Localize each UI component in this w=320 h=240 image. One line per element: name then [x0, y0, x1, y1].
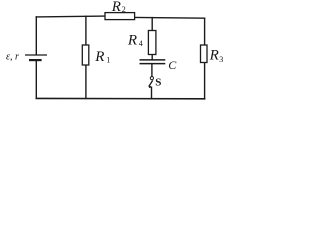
wire R1 branch upper	[85, 16, 87, 45]
svg-text:3: 3	[219, 55, 223, 64]
wire capacitor to switch	[151, 64, 153, 77]
svg-text:S: S	[155, 77, 161, 89]
svg-text:R: R	[127, 32, 137, 48]
svg-text:R: R	[111, 0, 121, 15]
svg-text:C: C	[168, 58, 177, 72]
wire bottom	[36, 97, 204, 99]
svg-text:R: R	[94, 49, 104, 65]
wire left edge lower (from battery)	[35, 61, 37, 99]
svg-text:ε, r: ε, r	[6, 52, 19, 63]
resistor R1 box	[82, 45, 89, 65]
resistor R4 box	[148, 31, 156, 55]
resistor R3 box	[201, 45, 208, 63]
switch S contact dot	[149, 86, 151, 88]
wire right edge lower	[204, 63, 206, 99]
wire left edge upper (to battery)	[35, 17, 37, 55]
svg-text:2: 2	[122, 5, 126, 14]
svg-text:1: 1	[106, 55, 110, 64]
capacitor C top plate	[140, 59, 166, 61]
svg-text:4: 4	[139, 39, 143, 48]
battery cell (long thin plate)	[25, 54, 47, 56]
wire switch to bottom	[151, 87, 153, 98]
wire R4 to capacitor	[151, 55, 153, 60]
switch S circle	[150, 77, 153, 80]
switch S arm	[149, 80, 153, 86]
wire R4 branch upper	[151, 18, 153, 31]
wire right edge upper	[204, 18, 206, 45]
resistor R2 box	[105, 13, 135, 20]
battery cell (short thick plate)	[29, 59, 42, 61]
wire top-right segment	[135, 16, 205, 19]
svg-text:R: R	[209, 47, 219, 63]
wire top-left segment	[36, 15, 105, 18]
capacitor C bottom plate	[140, 63, 166, 65]
wire R1 branch lower	[85, 65, 87, 98]
